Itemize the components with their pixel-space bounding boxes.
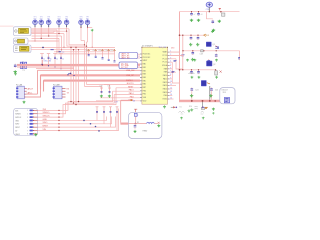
wire right test point drops (80, 27, 82, 40)
greens row (186, 59, 189, 62)
diode D1 (222, 13, 225, 16)
svg-text:8: 8 (170, 74, 171, 76)
svg-text:UART_EN: UART_EN (121, 56, 130, 59)
svg-text:NRST: NRST (43, 126, 49, 128)
wire L2 right (155, 123, 158, 125)
svg-text:PD1/OSC: PD1/OSC (143, 57, 151, 59)
svg-text:2: 2 (27, 114, 28, 116)
heater box (128, 112, 162, 138)
svg-text:osc: osc (62, 51, 65, 53)
capacitor C25 (211, 88, 213, 89)
capacitor C13 (41, 52, 44, 55)
diode D3 (171, 106, 173, 108)
gray coil (195, 106, 198, 109)
svg-text:HEAT: HEAT (143, 130, 149, 133)
svg-text:PA9: PA9 (164, 71, 167, 74)
svg-text:F: F (137, 115, 138, 117)
wire right rail pair (179, 12, 181, 101)
svg-text:TP6: TP6 (80, 17, 83, 19)
svg-text:PA15: PA15 (163, 91, 167, 94)
svg-text:6: 6 (27, 127, 28, 129)
capacitor C19 (215, 54, 217, 55)
svg-text:11: 11 (170, 84, 172, 86)
wire MCU right stubs (169, 51, 179, 53)
svg-text:C30: C30 (100, 86, 103, 88)
green flag (211, 30, 214, 32)
svg-text:PA2: PA2 (143, 69, 146, 72)
ground below MCU (163, 105, 166, 108)
svg-text:4: 4 (27, 120, 28, 122)
resistor R1 (96, 107, 99, 114)
svg-text:TP2: TP2 (40, 17, 43, 19)
svg-text:C10: C10 (98, 50, 101, 52)
capacitor C15 (54, 52, 57, 55)
svg-text:c8: c8 (201, 14, 203, 16)
svg-text:Q1: Q1 (213, 44, 215, 46)
svg-text:10: 10 (170, 81, 172, 83)
wire test point drops (34, 27, 36, 41)
wire J1 row 4 (38, 119, 61, 121)
svg-text:U1 STM32F1: U1 STM32F1 (142, 46, 153, 48)
svg-text:PA13: PA13 (163, 84, 167, 87)
svg-text:15: 15 (170, 98, 172, 100)
greens row2 (190, 76, 193, 79)
svg-text:P1 CAN: P1 CAN (16, 83, 23, 86)
svg-text:1n: 1n (43, 59, 45, 61)
MCU U1 left pin labels (143, 54, 151, 103)
ground C18 (191, 58, 194, 61)
wire mid bus row4 (55, 53, 115, 55)
bus entry marks (42, 47, 44, 49)
svg-text:BOOT0: BOOT0 (127, 83, 135, 85)
wire band VDD row1 (38, 69, 141, 71)
ground C25 (209, 94, 212, 97)
svg-text:sw1: sw1 (181, 114, 184, 116)
wire to heater (120, 100, 122, 123)
ground C30 (100, 95, 103, 98)
svg-text:C24: C24 (195, 90, 198, 92)
svg-text:1n: 1n (56, 59, 58, 61)
ferrite FB2 (201, 50, 204, 52)
wire top fanout bus (32, 28, 70, 30)
fuse F1 (134, 113, 137, 116)
svg-text:PA8: PA8 (164, 67, 167, 70)
svg-text:VIN: VIN (43, 129, 47, 131)
wire bottom nest lower (60, 117, 107, 121)
svg-text:SWO: SWO (15, 124, 20, 126)
wire P1 to verticals (27, 93, 38, 95)
svg-text:1n: 1n (50, 59, 52, 61)
pin numbers right (170, 51, 172, 100)
svg-text:USB_DP: USB_DP (126, 75, 135, 77)
svg-text:C9: C9 (92, 50, 94, 52)
svg-text:PC13: PC13 (163, 55, 167, 57)
wire drops to mid caps (84, 41, 86, 87)
svg-text:P2 UART: P2 UART (53, 83, 60, 86)
svg-text:PA11: PA11 (163, 77, 167, 80)
capacitor C3 (198, 12, 200, 13)
svg-text:SWDIO: SWDIO (126, 80, 133, 82)
svg-text:PA14: PA14 (163, 87, 167, 90)
connector J1 pins (27, 110, 37, 136)
svg-text:PA3: PA3 (143, 73, 146, 76)
svg-text:13: 13 (170, 91, 172, 93)
svg-text:3V3: 3V3 (206, 35, 209, 37)
capacitor C16 (197, 36, 199, 37)
wire C1 pin (208, 7, 210, 11)
wire J1 row 2 (38, 113, 61, 115)
power flag VDD (219, 8, 221, 10)
svg-text:CAN_H: CAN_H (27, 88, 34, 91)
wire right corner verticals (176, 59, 183, 69)
wire rail to top right (169, 12, 179, 52)
svg-text:c7: c7 (194, 14, 196, 16)
svg-text:3: 3 (170, 57, 171, 59)
ground P1 (22, 101, 25, 104)
capacitor C20 (208, 59, 210, 60)
svg-text:R10: R10 (189, 106, 192, 108)
power flag green net (88, 27, 93, 29)
junction dots on 5V rail (191, 100, 193, 102)
ground C15 (189, 43, 192, 46)
svg-text:TP5: TP5 (65, 17, 68, 19)
LDO symbol (224, 98, 229, 103)
svg-text:1n: 1n (62, 59, 64, 61)
ferrite module FB1 box (14, 38, 29, 44)
svg-text:6: 6 (170, 67, 171, 69)
wire J1 row 7 (38, 130, 61, 132)
wire J1 row 3 (38, 116, 61, 118)
svg-text:12: 12 (170, 87, 172, 89)
capacitor C4b (212, 20, 214, 21)
capacitor C22 (198, 70, 200, 71)
svg-text:C11: C11 (105, 50, 108, 52)
resistor R2 (103, 107, 106, 114)
regulator module U3 box (14, 45, 32, 53)
svg-text:PA12: PA12 (163, 81, 167, 84)
svg-text:GND2: GND2 (15, 134, 20, 136)
ground C31 (108, 95, 111, 98)
svg-text:PD0/OSC: PD0/OSC (143, 54, 151, 56)
svg-text:TP1: TP1 (34, 17, 37, 19)
svg-text:VSS2: VSS2 (162, 99, 167, 101)
MCU U1 right pins (168, 52, 170, 99)
svg-text:PA10: PA10 (163, 74, 167, 77)
svg-text:TP3: TP3 (47, 17, 50, 19)
svg-text:VDDA: VDDA (162, 64, 168, 67)
capacitor C15 (190, 36, 192, 37)
connector J1 box (14, 108, 38, 135)
harness connector H1 (119, 52, 138, 58)
svg-text:PB1: PB1 (143, 94, 146, 96)
svg-text:C31: C31 (108, 86, 111, 88)
svg-text:C18: C18 (200, 54, 203, 56)
svg-text:C8: C8 (85, 50, 87, 52)
power flag P1 top (14, 72, 17, 75)
svg-text:PA1: PA1 (143, 66, 146, 69)
wire mid bus rows (56, 30, 58, 52)
svg-text:7: 7 (170, 71, 171, 73)
diode D4 (202, 106, 204, 108)
svg-text:3V3: 3V3 (223, 92, 226, 94)
svg-text:14: 14 (170, 94, 172, 96)
svg-text:C25: C25 (215, 90, 218, 92)
wire thick 5V rail (179, 100, 224, 103)
capacitor C6 (14, 64, 16, 65)
resistor R4 (116, 107, 119, 114)
capacitor C17h (215, 46, 218, 49)
svg-text:R3: R3 (137, 122, 139, 124)
wire Q3 down (209, 86, 211, 101)
svg-text:PA0: PA0 (143, 63, 146, 66)
wire rail 3V3 row (180, 34, 204, 36)
wire J1 row 6 (38, 126, 61, 128)
svg-text:NRST: NRST (128, 86, 134, 88)
capacitor C16 (60, 52, 63, 55)
svg-text:PB4: PB4 (164, 95, 167, 97)
LDO regulator U2 box (220, 88, 235, 104)
svg-text:CAN_L: CAN_L (27, 91, 33, 94)
svg-text:PA6: PA6 (143, 83, 146, 86)
polarized capacitor C1 (206, 2, 212, 7)
svg-text:7: 7 (27, 130, 28, 132)
svg-text:sw2: sw2 (201, 114, 204, 116)
transistor Q3 (201, 81, 206, 87)
ground D1 (218, 20, 221, 23)
svg-text:USB_DM: USB_DM (126, 70, 135, 72)
oscillator module X1 box (14, 27, 32, 36)
MCU U1 (142, 47, 168, 104)
junction dots bottom (83, 120, 85, 122)
capacitor C28 in heater box (134, 124, 136, 126)
ground D3 (187, 109, 190, 112)
svg-text:c22 c23: c22 c23 (188, 73, 194, 75)
connector J1 pin names (15, 110, 22, 135)
ground right (212, 108, 215, 111)
svg-text:SWCLK: SWCLK (15, 117, 22, 119)
wire top right horizontal (179, 11, 240, 13)
coil D4 (179, 111, 204, 114)
svg-text:PA5: PA5 (143, 79, 146, 82)
power flag heater (134, 109, 137, 113)
ground J1 (34, 133, 37, 136)
wire band row3 (44, 79, 141, 81)
svg-text:SWCLK: SWCLK (43, 116, 51, 118)
wire J1 row 5 (38, 123, 61, 125)
svg-text:TDO_SW: TDO_SW (159, 47, 167, 49)
wire long verticals from top bus (70, 47, 72, 101)
ground C3 (197, 19, 200, 22)
svg-text:3: 3 (27, 117, 28, 119)
capacitor C27 right edge (239, 56, 241, 57)
MCU U1 right pin labels (162, 51, 168, 101)
net label marks right of MCU (182, 55, 185, 56)
below-rail diode D2 (201, 107, 204, 109)
svg-text:PA7: PA7 (143, 86, 146, 89)
wire oscillator output (31, 29, 57, 31)
capacitor C2 (191, 12, 193, 13)
wire nested bus corners (69, 29, 85, 45)
svg-text:8: 8 (27, 134, 28, 136)
wire band corners (37, 70, 39, 94)
capacitor C24 (191, 88, 193, 89)
ground heater (133, 130, 136, 133)
wire bus corners to C30 C31 (85, 87, 102, 89)
ground for C6 (14, 70, 17, 73)
ground L2 (157, 124, 160, 127)
harness connector H2 (119, 62, 138, 69)
svg-text:PA4: PA4 (143, 76, 146, 79)
svg-text:5: 5 (170, 64, 171, 66)
svg-text:GND: GND (43, 119, 48, 121)
wire green net drop (91, 32, 93, 47)
ground C24 (190, 94, 193, 97)
inductor L1 (215, 71, 218, 75)
svg-text:Y1: Y1 (22, 70, 24, 72)
svg-text:SWDIO: SWDIO (43, 112, 50, 114)
svg-text:NRST: NRST (15, 127, 20, 129)
wire rail row3 (180, 69, 216, 71)
wire crystal to MCU (43, 64, 141, 66)
svg-text:PC14: PC14 (163, 58, 167, 60)
capacitor C21 (191, 70, 193, 71)
svg-text:C12: C12 (110, 50, 113, 52)
svg-text:SWO: SWO (43, 122, 48, 124)
ground C16 (196, 43, 199, 46)
ground C4b (212, 29, 215, 32)
svg-text:5V0: 5V0 (171, 47, 174, 49)
transistor Q1 (206, 42, 211, 47)
svg-text:PB0: PB0 (143, 90, 146, 92)
wire lower crystal rows (17, 66, 74, 68)
ground C2 (190, 19, 193, 22)
wire crystal bus (17, 64, 43, 66)
svg-text:I2C_INT: I2C_INT (121, 67, 129, 69)
svg-text:TP7: TP7 (86, 17, 89, 19)
svg-text:K1: K1 (180, 107, 182, 109)
transistor Q2 (207, 61, 213, 66)
net label 3V3 (204, 34, 207, 36)
wire J1 row 1 (38, 109, 61, 111)
svg-text:1: 1 (27, 110, 28, 112)
capacitor C14 (47, 52, 50, 55)
resistor R3 (109, 107, 112, 114)
inductor L2 (147, 122, 155, 123)
wire C4 branch (207, 12, 213, 19)
svg-text:PC15: PC15 (163, 62, 167, 64)
wire faint stub left of X1 (0, 25, 14, 27)
wire ferrite output (28, 40, 59, 42)
wire rail row2 (183, 50, 240, 52)
wire inside heater (128, 123, 146, 125)
svg-text:Q2: Q2 (213, 64, 215, 66)
capacitor C18 (192, 51, 194, 52)
svg-text:OSC_IN: OSC_IN (44, 61, 52, 63)
svg-text:4: 4 (170, 61, 171, 63)
MCU U1 left pins (140, 54, 142, 101)
wire MCU left rows (104, 84, 140, 86)
svg-text:TP4: TP4 (58, 17, 61, 19)
crystal Y1 (20, 62, 22, 68)
wire bottom nest upper staircase (60, 91, 113, 110)
svg-text:5: 5 (27, 124, 28, 126)
blue net arrows mid (68, 73, 75, 76)
svg-text:SWDIO: SWDIO (15, 114, 21, 116)
svg-text:C26: C26 (206, 9, 209, 11)
svg-text:3V3: 3V3 (15, 110, 18, 112)
svg-text:9: 9 (170, 77, 171, 79)
wire band row2 (41, 74, 141, 76)
